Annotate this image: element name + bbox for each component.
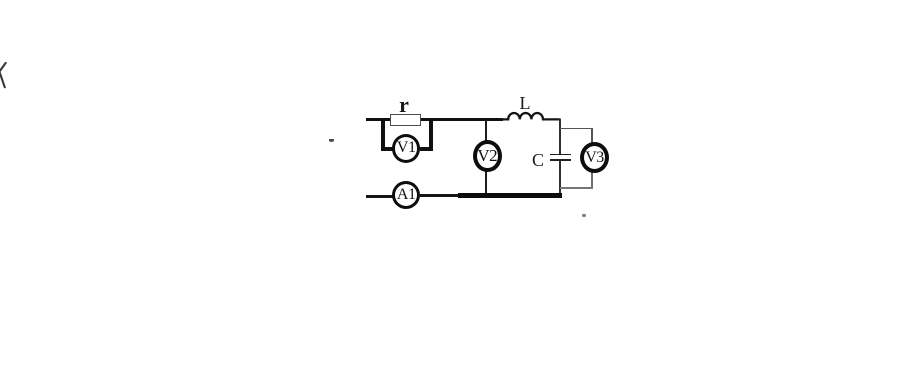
wire: V3 loop top horizontal (560, 128, 593, 130)
voltmeter V3 (580, 142, 609, 173)
label C (530, 150, 546, 171)
wire: V2 branch lower vertical (485, 170, 487, 195)
wire: bottom horizontal thick overlap (458, 193, 562, 197)
wire: bottom horizontal (ammeter to right) (420, 194, 562, 197)
inductor L (coil) (500, 105, 564, 123)
wire: V1 branch left horizontal (381, 147, 394, 150)
ammeter A1 (392, 181, 420, 209)
voltmeter V2 (473, 140, 502, 172)
stray speck lower right (582, 214, 586, 217)
wire: top horizontal (source to inductor) (366, 118, 503, 122)
wire: V1 branch right vertical (429, 119, 433, 151)
wire: V2 branch upper vertical (485, 120, 487, 141)
wire: capacitor leg, lower part (559, 161, 561, 196)
wire: V3 loop bottom horizontal (560, 187, 593, 189)
wire: V1 branch right horizontal (420, 147, 434, 150)
stray mark: clipped letter X at left edge (0, 58, 9, 92)
label r (396, 92, 412, 118)
wire: V3 loop right lower vertical (591, 171, 593, 189)
wire: vertical from inductor down to bottom (capacitor leg, upper part) (559, 119, 561, 155)
voltmeter V1 (392, 134, 420, 163)
wire: bottom left stub (to ammeter) (366, 195, 393, 198)
capacitor C top plate (550, 154, 571, 156)
wire: V3 loop right upper vertical (591, 128, 593, 144)
resistor r (box) (390, 114, 421, 126)
stray speck near node (329, 139, 334, 142)
label L (516, 93, 534, 114)
wire: V1 branch left vertical (381, 119, 385, 151)
capacitor C bottom plate (550, 159, 571, 161)
